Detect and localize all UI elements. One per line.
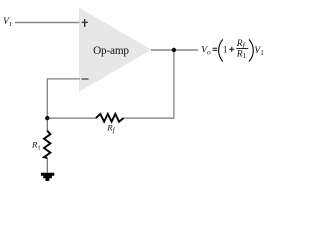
svg-text:R1: R1 — [236, 50, 247, 61]
op-amp plus input symbol — [82, 19, 88, 27]
op-amp U1 — [79, 8, 151, 92]
wire inverting input lead and feedback left vertical — [47, 79, 80, 118]
wire feedback bottom left segment — [47, 117, 97, 119]
big left paren — [219, 39, 223, 61]
big right paren — [249, 39, 253, 61]
svg-text:V1: V1 — [3, 16, 12, 28]
wire R1 bottom lead — [46, 158, 48, 173]
wire output vertical drop and feedback bottom right segment — [124, 50, 174, 118]
node output junction — [172, 48, 176, 52]
op-amp minus input symbol — [82, 78, 89, 80]
wire V1 input lead — [15, 22, 80, 24]
resistor Rf — [96, 114, 124, 122]
resistor R1 — [44, 131, 50, 158]
wire R1 top lead — [46, 118, 48, 131]
svg-text:V1: V1 — [254, 45, 264, 57]
svg-text:Rf: Rf — [236, 39, 246, 50]
svg-text:1: 1 — [223, 45, 228, 56]
wire output lead — [151, 49, 198, 51]
svg-text:Op-amp: Op-amp — [93, 45, 129, 57]
label Vo output formula — [201, 39, 264, 62]
svg-text:Vo: Vo — [201, 45, 211, 57]
node feedback junction — [45, 116, 49, 120]
svg-text:R1: R1 — [31, 139, 41, 151]
ground — [41, 173, 54, 181]
svg-text:Rf: Rf — [106, 123, 115, 135]
